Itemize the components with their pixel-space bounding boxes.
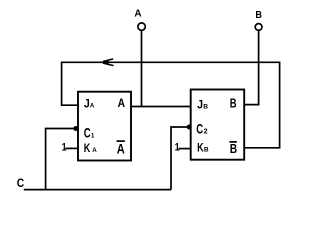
junction dot at C2 input — [187, 125, 192, 130]
label C2 (clock pin of U2) — [196, 121, 207, 137]
svg-text:A: A — [90, 103, 95, 110]
svg-text:2: 2 — [204, 126, 208, 135]
constant 1 at KB — [175, 142, 191, 154]
wire feedback from B-bar output to JA input — [62, 62, 280, 148]
flip-flop U2 (FF B) box — [191, 90, 245, 160]
svg-text:B: B — [230, 141, 237, 156]
label A-bar (output Q-bar of U1) — [117, 141, 125, 156]
svg-text:K: K — [84, 141, 91, 155]
constant 1 at KA — [62, 142, 78, 154]
svg-text:B: B — [203, 104, 208, 111]
wire from terminal A down to Q-A net — [141, 30, 143, 106]
svg-text:1: 1 — [91, 132, 95, 139]
svg-text:A: A — [134, 9, 142, 20]
terminal A — [134, 9, 145, 31]
wire C riser to C1 — [46, 129, 78, 190]
svg-text:B: B — [255, 10, 262, 21]
wire C bottom run — [24, 189, 171, 191]
label B-bar (output Q-bar of U2) — [229, 141, 237, 156]
svg-text:B: B — [230, 95, 237, 110]
wire A output of U1 to JB input of U2 — [131, 106, 191, 108]
label JB (pin J of U2) — [197, 98, 208, 112]
label JA (pin J of U1) — [84, 97, 95, 111]
svg-text:J: J — [197, 98, 203, 112]
label KB (pin K of U2) — [197, 140, 209, 154]
svg-text:A: A — [118, 96, 125, 110]
svg-text:A: A — [117, 141, 125, 156]
junction dot at C1 input — [73, 126, 78, 131]
svg-text:C: C — [84, 125, 91, 141]
arrowhead on feedback wire pointing left — [100, 59, 114, 66]
svg-text:A: A — [92, 147, 97, 154]
label C1 (clock pin of U1) — [84, 125, 95, 141]
label KA (pin K of U1) — [84, 141, 98, 155]
terminal B — [255, 10, 262, 30]
svg-text:C: C — [196, 121, 203, 137]
wire from terminal B down to Q-B output — [244, 31, 258, 105]
svg-text:1: 1 — [175, 142, 180, 154]
flip-flop U1 (FF A) box — [78, 92, 131, 161]
svg-text:B: B — [204, 147, 209, 154]
wire C riser to C2 — [171, 127, 191, 190]
svg-text:K: K — [197, 140, 204, 154]
svg-text:C: C — [17, 176, 25, 190]
